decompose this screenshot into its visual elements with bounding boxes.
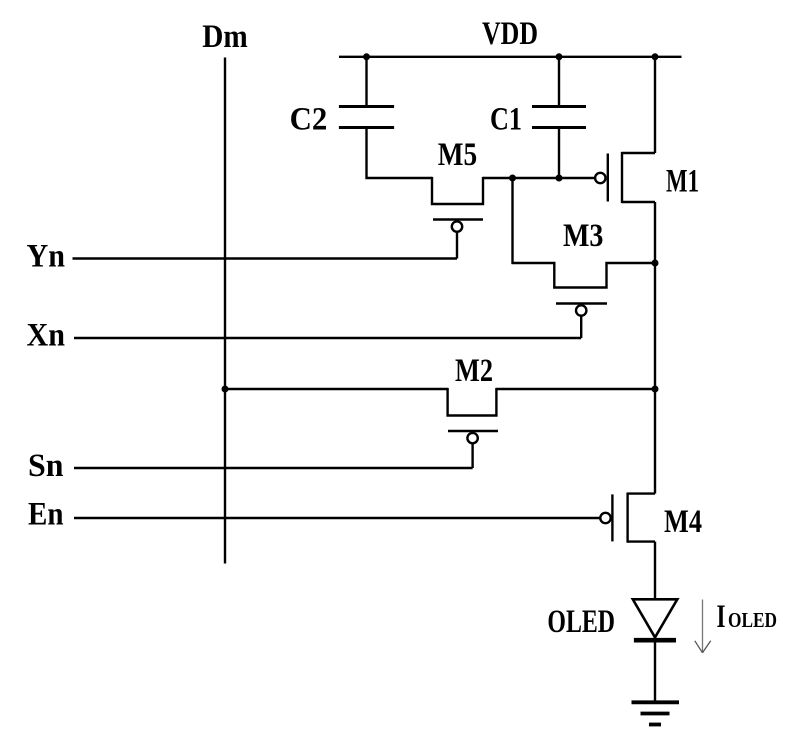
svg-text:M2: M2 (455, 353, 493, 389)
transistor M3 (513, 263, 657, 338)
wire OLED cathode to ground (654, 642, 656, 702)
wire Dm data column (224, 58, 226, 564)
wire Yn to M5 gate (73, 257, 458, 259)
svg-text:OLED: OLED (728, 608, 777, 632)
transistor M1 (595, 152, 655, 203)
wire VDD to C2 (365, 57, 367, 107)
wire M2 drain to column (496, 388, 655, 390)
svg-text:Dm: Dm (202, 19, 248, 55)
wire C1 to node A (558, 128, 560, 179)
wire M4 source to OLED anode (654, 542, 656, 600)
wire Dm to M2 source (225, 388, 448, 390)
svg-text:M3: M3 (563, 218, 604, 254)
wire Xn to M3 gate (74, 337, 581, 339)
junction M2 drain on column (652, 386, 659, 393)
wire node A to M3 source (511, 178, 513, 264)
junction VDD-C1 (556, 53, 563, 60)
junction VDD-C2 (363, 53, 370, 60)
current arrow I_OLED (695, 600, 711, 653)
capacitor C1 (532, 107, 586, 128)
diode OLED (633, 599, 678, 640)
junction node A left (509, 175, 516, 182)
svg-text:Xn: Xn (27, 318, 66, 354)
wire VDD to M1 drain (654, 57, 656, 153)
junction node A right (556, 175, 563, 182)
wire C2 to M5 source (367, 128, 433, 179)
junction M3 drain on column (652, 260, 659, 267)
svg-text:OLED: OLED (547, 604, 615, 640)
svg-text:C1: C1 (490, 102, 522, 138)
svg-text:M1: M1 (666, 163, 699, 199)
svg-text:En: En (28, 497, 64, 533)
svg-text:C2: C2 (290, 102, 328, 138)
capacitor C2 (339, 107, 394, 128)
wire Sn to M2 gate (74, 467, 473, 469)
wire En to M4 gate (74, 517, 601, 519)
ground (632, 702, 680, 724)
wire VDD to C1 (558, 57, 560, 107)
transistor M5 (432, 177, 483, 259)
junction VDD-M1 (652, 53, 659, 60)
svg-text:VDD: VDD (482, 16, 538, 52)
junction Dm-M2 (222, 386, 229, 393)
wire M1 source down to M4 (654, 202, 656, 494)
svg-text:M4: M4 (664, 504, 702, 540)
svg-text:Sn: Sn (28, 448, 64, 484)
wire M5 drain to node A (483, 177, 595, 179)
svg-text:I: I (717, 599, 726, 635)
wire VDD rail (339, 56, 682, 58)
svg-text:Yn: Yn (27, 239, 66, 275)
transistor M2 (448, 388, 498, 468)
transistor M4 (600, 493, 655, 543)
svg-text:M5: M5 (438, 137, 477, 173)
